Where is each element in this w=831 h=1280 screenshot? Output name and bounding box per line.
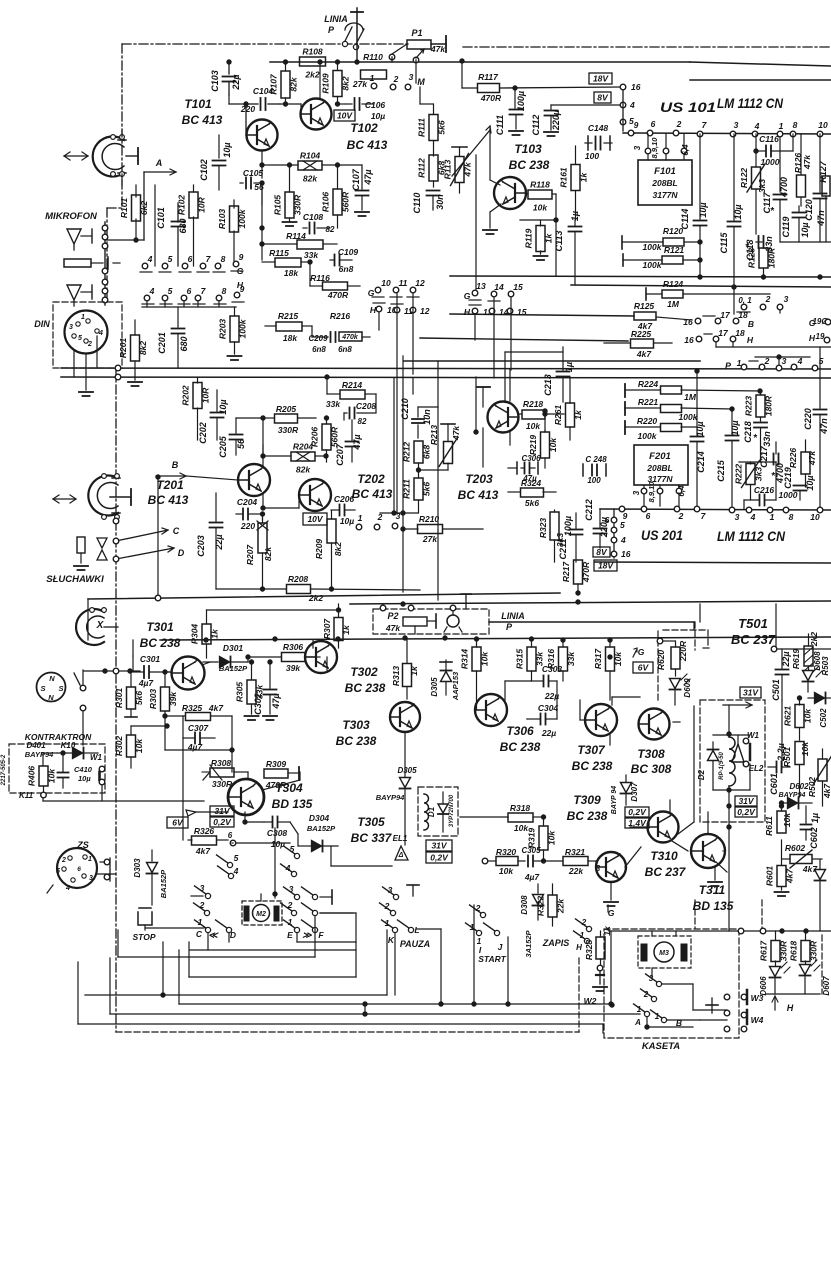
svg-text:C206: C206 [334, 494, 355, 504]
IC US201 label [641, 528, 785, 544]
svg-text:100: 100 [585, 151, 599, 161]
svg-text:31V: 31V [743, 688, 759, 698]
IC US201 pin bus [600, 506, 831, 522]
svg-text:10k: 10k [134, 738, 144, 753]
capacitor C303 [531, 664, 562, 701]
svg-text:10k: 10k [547, 830, 557, 845]
svg-text:W4: W4 [751, 1015, 764, 1025]
svg-text:4: 4 [98, 330, 103, 337]
wire bus y604 [350, 600, 831, 606]
svg-text:R102: R102 [177, 195, 187, 216]
headphone jack symbols [74, 537, 107, 570]
wire kontraktron output [43, 798, 204, 801]
svg-text:A: A [155, 158, 163, 168]
svg-text:10: 10 [818, 120, 828, 130]
svg-text:START: START [478, 954, 506, 964]
svg-text:BC 337: BC 337 [351, 831, 393, 845]
svg-text:R111: R111 [417, 118, 427, 137]
resistor R324 [508, 478, 556, 508]
svg-text:C213: C213 [543, 374, 553, 396]
US201 left pins [605, 509, 631, 559]
transistor T202 [299, 472, 393, 511]
svg-text:R101: R101 [119, 198, 129, 219]
svg-text:1000: 1000 [779, 490, 798, 500]
svg-text:2: 2 [676, 119, 682, 129]
svg-text:1: 1 [370, 73, 375, 83]
resistor R219 [528, 409, 558, 468]
svg-text:W1: W1 [90, 753, 103, 762]
wire head to mic switch [122, 130, 144, 240]
svg-text:T501: T501 [738, 616, 768, 631]
svg-text:C218: C218 [743, 421, 753, 443]
svg-text:C108: C108 [303, 212, 324, 222]
resistor R212 [402, 441, 432, 472]
svg-text:T202: T202 [357, 472, 385, 486]
transistor T306 [475, 694, 541, 754]
svg-text:C217: C217 [759, 445, 769, 468]
svg-text:D607: D607 [822, 976, 831, 996]
LED D609 [670, 674, 693, 705]
svg-text:33k: 33k [566, 651, 576, 666]
resistor R320 [482, 847, 525, 876]
svg-text:T307: T307 [577, 743, 606, 757]
svg-text:R119: R119 [524, 228, 534, 248]
wire T310 T311 links [630, 800, 723, 886]
resistor R126 [793, 134, 812, 206]
wire relay internals [713, 735, 750, 790]
boxed 31V [740, 687, 761, 698]
svg-text:10k: 10k [526, 421, 541, 431]
svg-text:M2: M2 [256, 911, 266, 918]
resistor R323 3k3 [538, 510, 565, 562]
resistor R223 [744, 391, 774, 421]
svg-text:5: 5 [819, 356, 824, 366]
svg-text:39k: 39k [168, 691, 178, 706]
resistor R121 [623, 245, 700, 270]
svg-text:33k: 33k [304, 250, 319, 260]
resistor R325 [163, 703, 232, 721]
tape head lower (play) [53, 474, 131, 520]
svg-text:C: C [173, 526, 180, 536]
svg-text:C212: C212 [584, 499, 594, 521]
IC US101 pin bus [623, 119, 831, 137]
svg-text:C148: C148 [588, 123, 609, 133]
tape head X (erase) [76, 608, 118, 645]
svg-text:R114: R114 [286, 231, 306, 241]
svg-text:C110: C110 [412, 193, 422, 214]
svg-text:C201: C201 [157, 332, 167, 354]
capacitor C120 [804, 134, 827, 242]
node A arrow [144, 158, 176, 175]
resistor R211 [402, 470, 432, 513]
svg-text:BAYP94: BAYP94 [779, 792, 806, 799]
svg-text:C305: C305 [521, 846, 541, 855]
wire bus y562 [595, 562, 831, 563]
svg-text:22µ: 22µ [214, 534, 224, 550]
svg-text:6,4: 6,4 [677, 485, 686, 497]
svg-text:2k2: 2k2 [308, 593, 323, 603]
svg-text:C304: C304 [538, 703, 559, 713]
capacitor C602 [801, 806, 821, 849]
switch column D [216, 853, 239, 940]
svg-text:8k2: 8k2 [138, 341, 148, 355]
capacitor C220 [803, 347, 829, 509]
svg-text:R118: R118 [530, 180, 550, 190]
svg-text:1k: 1k [210, 628, 220, 639]
svg-text:3A152P: 3A152P [524, 929, 533, 957]
svg-text:P2: P2 [387, 611, 398, 621]
svg-text:C111: C111 [495, 115, 505, 135]
svg-text:1k: 1k [573, 409, 583, 420]
boxed 18V 201 [594, 560, 617, 571]
svg-text:C410: C410 [74, 765, 93, 774]
svg-text:R213: R213 [429, 425, 439, 446]
svg-text:R326: R326 [194, 826, 215, 836]
svg-text:R618: R618 [789, 941, 799, 962]
svg-text:3k3: 3k3 [757, 179, 767, 193]
svg-text:180R: 180R [767, 247, 777, 268]
svg-text:3k3: 3k3 [754, 467, 764, 481]
wire C115 bus joins [698, 275, 822, 279]
resistor R317 trimmer [593, 638, 623, 700]
transistor T304 [186, 779, 313, 816]
svg-text:T103: T103 [514, 142, 542, 156]
svg-text:PAUZA: PAUZA [400, 939, 430, 949]
svg-text:1µ: 1µ [564, 362, 574, 372]
potentiometer P2 dashed box [373, 609, 489, 634]
svg-text:10k: 10k [803, 708, 813, 723]
wire dashed section boundary mid [658, 630, 712, 702]
wire R101 R102 feeds [134, 185, 234, 266]
svg-text:D307: D307 [630, 782, 639, 802]
svg-text:R223: R223 [744, 396, 754, 417]
vertical signal wires x397-413 [380, 356, 418, 592]
resistor R115 [262, 248, 310, 278]
resistor R210 [401, 514, 483, 544]
svg-text:BC 413: BC 413 [458, 488, 499, 502]
svg-text:C307: C307 [188, 723, 210, 733]
svg-text:47µ: 47µ [363, 169, 373, 185]
svg-text:R113: R113 [443, 159, 453, 179]
capacitor C204 [236, 497, 263, 531]
resistor R326 [188, 826, 236, 856]
svg-text:C105: C105 [243, 168, 264, 178]
svg-text:D606: D606 [759, 976, 768, 996]
svg-text:BD 135: BD 135 [272, 797, 313, 811]
svg-text:BC 238: BC 238 [572, 759, 613, 773]
svg-text:H: H [464, 307, 471, 317]
wire T101 emitter down [260, 183, 264, 260]
svg-text:330R: 330R [293, 194, 303, 215]
wire R104 right to C107 [337, 165, 362, 168]
svg-text:MIKROFON: MIKROFON [45, 211, 98, 222]
svg-text:47k: 47k [463, 161, 473, 177]
svg-text:22µ: 22µ [781, 651, 791, 667]
wire bus y276 [450, 276, 831, 277]
svg-text:R117: R117 [478, 72, 499, 82]
label MIKROFON [45, 211, 98, 222]
svg-text:47k: 47k [385, 623, 401, 633]
resistor R621 lower [764, 804, 792, 836]
capacitor C119 [781, 206, 810, 242]
svg-text:R215: R215 [278, 311, 299, 321]
label T301 [140, 620, 181, 650]
svg-text:C215: C215 [716, 459, 726, 482]
resistor R308 [202, 758, 248, 789]
resistor R102 [177, 192, 207, 218]
svg-text:C107: C107 [351, 168, 361, 191]
svg-text:BAYP94: BAYP94 [25, 750, 54, 759]
IC F101 [638, 160, 692, 205]
svg-text:T102: T102 [350, 121, 378, 135]
svg-text:R224: R224 [638, 379, 659, 389]
label W2 junction [584, 996, 615, 1007]
svg-text:R328: R328 [584, 940, 594, 961]
capacitor C212 [584, 499, 609, 548]
svg-text:22µ: 22µ [541, 728, 556, 738]
svg-text:C214: C214 [696, 451, 706, 473]
svg-text:1000: 1000 [761, 157, 780, 167]
svg-text:T301: T301 [146, 620, 174, 634]
svg-text:5: 5 [168, 286, 173, 296]
capacitor C601 [768, 700, 790, 795]
wire right column join y242 [756, 241, 831, 243]
resistor R621 upper [783, 696, 813, 740]
svg-text:470R: 470R [327, 290, 349, 300]
svg-text:4: 4 [750, 512, 756, 522]
capacitor C205 [218, 418, 263, 458]
wire main top supply bus [270, 62, 831, 80]
svg-text:2: 2 [678, 511, 684, 521]
wire bus y338 [420, 338, 628, 341]
wire stop row [145, 927, 204, 929]
pin row 0 1 2 3 [737, 294, 789, 313]
svg-text:5k6: 5k6 [134, 691, 144, 705]
svg-text:EL2: EL2 [749, 764, 764, 773]
svg-text:R304: R304 [190, 624, 200, 645]
svg-text:220µ: 220µ [599, 517, 609, 538]
svg-text:8k2: 8k2 [333, 542, 343, 556]
dashed box D1 with coil [418, 787, 458, 836]
switch zapis pins [574, 905, 615, 944]
node B arrow [156, 460, 186, 599]
svg-text:BAYP 94: BAYP 94 [611, 786, 618, 815]
svg-text:15: 15 [513, 282, 523, 292]
boxed 31V 0,2V pair relay [735, 796, 757, 817]
svg-text:0,2V: 0,2V [430, 853, 449, 863]
svg-text:STOP: STOP [133, 932, 156, 942]
resistor R406 [27, 766, 57, 798]
dashed segments LED box [695, 900, 822, 994]
svg-text:18V: 18V [593, 74, 609, 84]
marker G arrow [633, 647, 645, 657]
svg-text:P: P [328, 25, 335, 35]
svg-text:D: D [230, 930, 236, 940]
svg-text:2: 2 [87, 341, 92, 348]
diode D303 [133, 850, 168, 905]
svg-text:C102: C102 [199, 159, 209, 181]
svg-text:R321: R321 [565, 847, 586, 857]
svg-text:18k: 18k [283, 333, 298, 343]
capacitor C217 [759, 442, 785, 484]
svg-text:≫: ≫ [302, 930, 312, 940]
svg-text:US 101: US 101 [660, 100, 716, 115]
svg-text:C220: C220 [803, 408, 813, 430]
contact pins left of D303 [100, 858, 110, 881]
resistor R309 [264, 759, 299, 790]
ground T103 emitter [483, 204, 501, 234]
svg-text:10k: 10k [613, 651, 623, 666]
pin row H 4-9 [142, 280, 245, 304]
svg-text:C205: C205 [218, 435, 228, 458]
svg-text:P: P [725, 361, 732, 371]
resistor R216 with C209 [308, 311, 370, 354]
switch C [113, 526, 180, 544]
svg-text:4: 4 [147, 254, 153, 264]
svg-text:R303: R303 [148, 689, 158, 710]
svg-text:D304: D304 [309, 813, 330, 823]
svg-text:2,2µ: 2,2µ [776, 743, 786, 762]
marker H arrow [766, 994, 820, 1013]
resistor R214 [325, 375, 376, 412]
svg-text:R313: R313 [391, 666, 401, 687]
svg-text:3: 3 [409, 72, 414, 82]
resistor R117 [460, 59, 620, 103]
svg-text:R317: R317 [593, 648, 603, 670]
svg-text:R322: R322 [536, 896, 546, 917]
svg-text:BC 238: BC 238 [140, 636, 181, 650]
svg-text:C115: C115 [719, 232, 729, 254]
svg-text:27k: 27k [422, 534, 438, 544]
resistor R313 [391, 638, 419, 699]
motor M2 [242, 892, 282, 925]
svg-text:R220: R220 [637, 416, 658, 426]
svg-text:T101: T101 [184, 97, 212, 111]
svg-text:SŁUCHAWKI: SŁUCHAWKI [46, 574, 104, 585]
transistor T102 [301, 99, 388, 153]
svg-text:R212: R212 [402, 442, 412, 463]
resistor R122 trimmer [739, 134, 767, 234]
LED D608 [803, 651, 823, 692]
svg-text:T201: T201 [156, 478, 184, 492]
capacitor C211 [558, 513, 583, 562]
svg-text:R305: R305 [235, 682, 245, 703]
svg-text:BC 238: BC 238 [567, 809, 608, 823]
svg-text:BD 135: BD 135 [693, 899, 734, 913]
svg-text:6: 6 [188, 254, 193, 264]
wire switch matrix drops [190, 913, 395, 995]
capacitor C302 [253, 660, 281, 720]
resistor R106 [321, 163, 351, 228]
capacitor C116 [754, 134, 793, 167]
connector DIN [34, 311, 107, 391]
svg-text:4: 4 [620, 535, 626, 545]
dashed box KASETA [604, 929, 739, 1052]
svg-text:8V: 8V [596, 547, 608, 557]
capacitor C203 [196, 493, 224, 589]
resistor R215 [265, 311, 312, 343]
svg-text:17: 17 [720, 310, 731, 320]
svg-text:6k2: 6k2 [139, 201, 149, 215]
svg-text:18: 18 [735, 328, 745, 338]
svg-text:X: X [96, 620, 105, 631]
IC US101 label [660, 96, 783, 115]
switch D [113, 546, 185, 562]
resistor R109 [321, 60, 351, 104]
svg-text:R205: R205 [276, 404, 297, 414]
resistor R218 [518, 399, 564, 431]
svg-text:1k: 1k [579, 172, 589, 183]
svg-text:BC 413: BC 413 [182, 113, 223, 127]
svg-text:6: 6 [228, 831, 233, 840]
tape head (record/play) upper [64, 135, 138, 177]
contacts W3 W4 [693, 990, 764, 1032]
svg-text:47k: 47k [430, 44, 446, 54]
boxed 6V T306 [633, 662, 653, 673]
svg-text:R204: R204 [293, 442, 314, 452]
svg-text:27k: 27k [352, 79, 368, 89]
svg-text:R222: R222 [734, 464, 744, 485]
resistor R103 [217, 206, 247, 232]
wire M to T103 input [420, 87, 433, 104]
svg-text:C116: C116 [759, 134, 779, 144]
wire bus y592-599 headphone line [88, 593, 560, 599]
boxed 31V 0,2V pair D1 [426, 840, 452, 863]
svg-text:N: N [48, 693, 54, 702]
resistor R111 [417, 104, 447, 156]
svg-text:R314: R314 [460, 649, 470, 670]
svg-text:K11: K11 [19, 791, 34, 800]
resistor R116 [308, 260, 360, 300]
svg-text:4k7: 4k7 [208, 703, 224, 713]
transistor T310 [645, 812, 687, 880]
resistor R125 [634, 301, 692, 331]
svg-text:4700: 4700 [779, 177, 789, 198]
svg-text:C: C [196, 929, 203, 939]
svg-text:R125: R125 [634, 301, 655, 311]
resistor R303 [148, 670, 178, 750]
svg-text:4k7: 4k7 [785, 868, 795, 884]
microphone jack contacts column [102, 222, 144, 305]
svg-text:330R: 330R [809, 940, 819, 961]
svg-text:EL1: EL1 [393, 834, 408, 843]
resistor R601 [765, 840, 795, 896]
dashed box contactron [1, 744, 105, 793]
svg-text:BC 237: BC 237 [645, 865, 687, 879]
resistor R619 hatched [791, 632, 819, 671]
wire loop y995 [85, 993, 387, 997]
svg-text:4k7: 4k7 [636, 349, 652, 359]
svg-text:C216: C216 [754, 485, 775, 495]
svg-text:100µ: 100µ [563, 516, 573, 536]
resistor R120 [622, 226, 700, 252]
relay dashed box [700, 700, 765, 822]
svg-text:KASETA: KASETA [642, 1041, 680, 1052]
svg-text:R502: R502 [807, 777, 817, 798]
potentiometer P1 [389, 28, 446, 63]
svg-text:BC 413: BC 413 [352, 487, 393, 501]
svg-text:47n: 47n [816, 210, 826, 227]
boxed 31V 0,2V pair upper [210, 806, 234, 827]
svg-text:F201: F201 [649, 451, 671, 462]
wire T501 area [695, 604, 831, 652]
connector LINIA P top jack [324, 8, 364, 50]
capacitor C210 [400, 361, 438, 600]
svg-text:R217: R217 [561, 561, 571, 583]
svg-text:10R: 10R [197, 196, 207, 212]
resistor R203 [218, 307, 248, 360]
svg-text:LM 1112 CN: LM 1112 CN [717, 96, 783, 111]
